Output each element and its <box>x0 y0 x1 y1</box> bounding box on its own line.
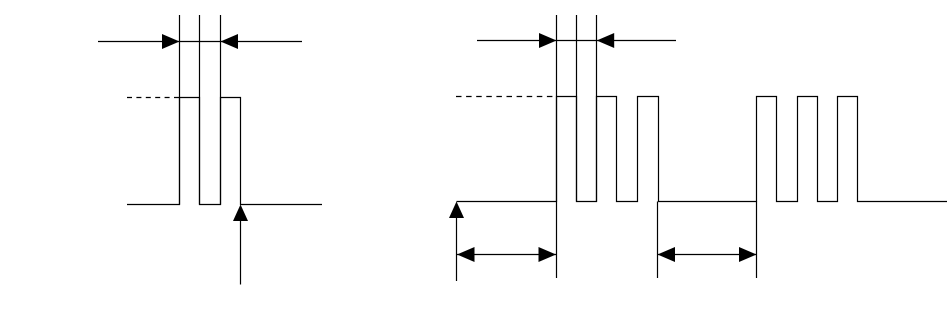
dimension arrowhead pointing right (left diagram) <box>162 34 180 49</box>
interval dimension line 1 (signal start to burst 1) <box>457 254 556 256</box>
interval dimension line 2 (burst 1 end to burst 2 start) <box>658 254 757 256</box>
interval arrowhead pointing right (dimension 1) <box>539 247 557 262</box>
extension line at first falling edge (left diagram) <box>199 15 201 205</box>
up arrowhead at signal start (right diagram) <box>449 202 464 219</box>
up arrow shaft (right diagram) <box>456 215 458 281</box>
right waveform (two bursts of three pulses) <box>457 97 948 202</box>
left waveform (two narrow pulses) <box>127 98 322 205</box>
dashed high-level reference line (right diagram) <box>456 96 557 98</box>
dimension line measuring pulse width (right diagram) <box>477 40 676 42</box>
interval arrowhead pointing left (dimension 2) <box>658 247 676 262</box>
dashed high-level reference line (left diagram) <box>127 97 180 99</box>
below-baseline extension at burst 2 start <box>756 202 758 279</box>
extension line at first falling edge (right diagram) <box>576 15 578 202</box>
dimension line measuring pulse width (left diagram) <box>98 41 302 43</box>
up arrowhead at second falling edge (left diagram) <box>233 205 248 222</box>
extension line at second rising edge (left diagram) <box>220 15 222 205</box>
up arrow shaft (left diagram) <box>240 219 242 285</box>
below-baseline extension at burst 1 end <box>657 202 659 279</box>
interval arrowhead pointing left (dimension 1) <box>457 247 475 262</box>
dimension arrowhead pointing left (left diagram) <box>221 34 239 49</box>
dimension arrowhead pointing right (right diagram) <box>539 33 557 48</box>
dimension arrowhead pointing left (right diagram) <box>597 33 615 48</box>
interval arrowhead pointing right (dimension 2) <box>739 247 757 262</box>
below-baseline extension at burst 1 start <box>556 202 558 279</box>
extension line at second rising edge (right diagram) <box>596 15 598 202</box>
extension line at first rising edge (right diagram) <box>556 15 558 202</box>
extension line at first rising edge (left diagram) <box>179 15 181 205</box>
